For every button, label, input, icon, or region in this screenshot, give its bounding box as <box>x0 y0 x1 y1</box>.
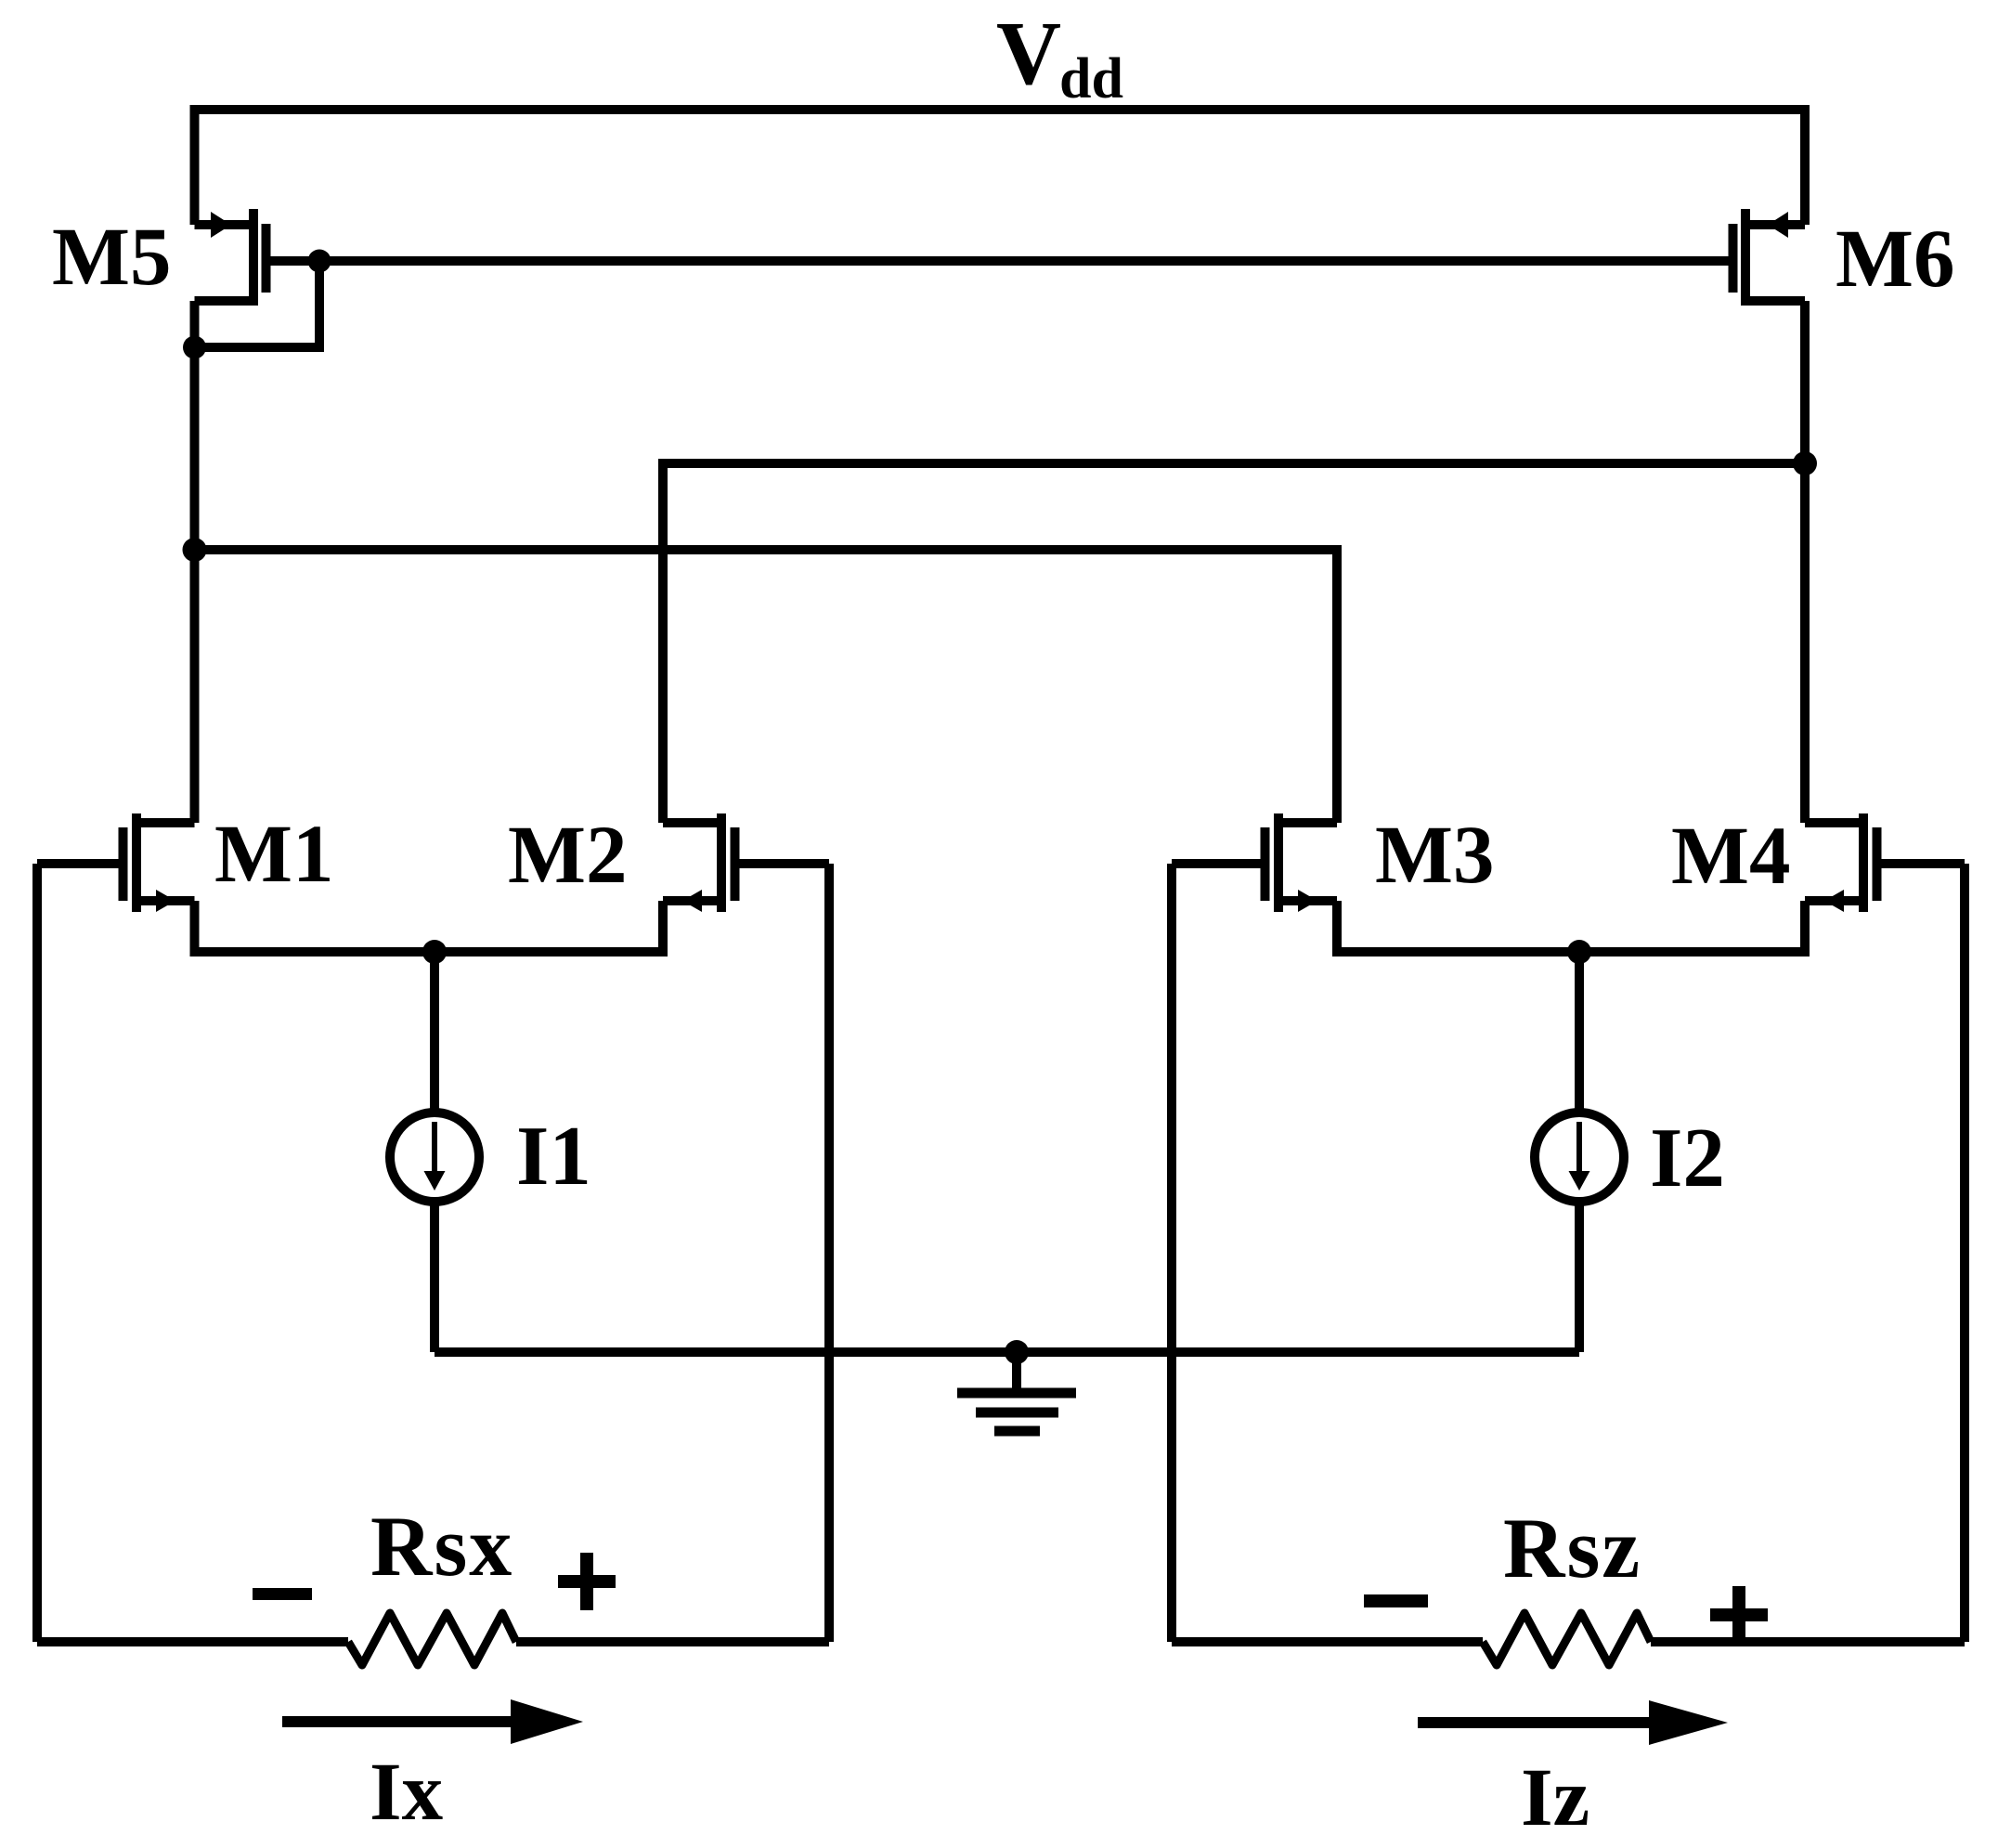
svg-text:I2: I2 <box>1650 1111 1725 1204</box>
transistor M4 <box>1805 813 1965 912</box>
svg-text:M5: M5 <box>52 212 172 303</box>
svg-text:M4: M4 <box>1671 811 1791 902</box>
wire Vdd rail with drops to M5 and M6 sources <box>195 110 1806 225</box>
svg-text:Rsz: Rsz <box>1503 1501 1641 1595</box>
wire ground bus <box>435 1347 1579 1357</box>
wire M1 source tail <box>195 901 435 952</box>
svg-text:M2: M2 <box>508 810 628 901</box>
transistor M2 <box>663 813 829 912</box>
wire bottom left from M1 gate to Rsx <box>37 1637 348 1646</box>
svg-text:M1: M1 <box>214 809 334 900</box>
junction dot node X sources M1 M2 <box>422 940 447 964</box>
wire M5 drain down to M1 drain <box>190 301 200 823</box>
svg-text:V: V <box>996 4 1061 103</box>
resistor Rsx <box>348 1613 516 1665</box>
junction dot M5 drain <box>183 336 206 359</box>
transistor M5 <box>195 209 320 306</box>
wire M6 drain down to M4 drain <box>1800 301 1810 823</box>
svg-text:Rsx: Rsx <box>370 1499 513 1594</box>
current source I1 <box>390 952 479 1352</box>
svg-text:I1: I1 <box>516 1109 591 1203</box>
wire M2 source tail <box>435 901 663 952</box>
wire Rsx to M2 gate vertical <box>516 1637 829 1646</box>
transistor M1 <box>37 813 195 912</box>
svg-text:M3: M3 <box>1375 810 1495 901</box>
wire Rsz to M4 gate vertical <box>1651 1637 1965 1646</box>
label plus sign Rsz <box>1710 1586 1768 1644</box>
label Vdd <box>996 4 1123 111</box>
svg-text:dd: dd <box>1059 47 1123 111</box>
junction dot M6 drain node B <box>1793 451 1817 475</box>
svg-text:M6: M6 <box>1836 214 1955 305</box>
junction dot node Z sources M3 M4 <box>1567 940 1591 964</box>
wire M3 gate to Rsz minus terminal <box>1167 864 1176 1642</box>
svg-text:Iz: Iz <box>1521 1752 1589 1843</box>
wire M5 gate to M6 gate <box>319 256 1729 266</box>
label plus sign Rsx <box>558 1553 616 1610</box>
label minus sign Rsz <box>1364 1594 1428 1607</box>
wire node A to M3 drain <box>195 550 1338 823</box>
junction dot M5 gate <box>308 250 331 273</box>
wire M4 source tail <box>1579 901 1805 952</box>
ground symbol <box>957 1352 1076 1437</box>
wire bottom right from M3 gate to Rsz <box>1172 1637 1483 1646</box>
wire M1 gate to Rsx minus terminal <box>32 864 42 1642</box>
arrow Ix <box>282 1699 583 1744</box>
resistor Rsz <box>1483 1613 1651 1665</box>
current source I2 <box>1535 952 1624 1352</box>
wire M2 gate to Rsx plus terminal <box>824 864 834 1642</box>
svg-text:Ix: Ix <box>370 1747 444 1838</box>
transistor M6 <box>1729 209 1806 306</box>
junction dot ground <box>1005 1340 1029 1364</box>
wire M4 gate to Rsz plus terminal <box>1960 864 1969 1642</box>
wire M5 diode connection gate to drain <box>195 261 320 347</box>
wire node B to M2 drain <box>663 463 1805 823</box>
junction dot node A <box>183 538 207 562</box>
wire M3 source tail <box>1337 901 1579 952</box>
wire M1 drain up to node A <box>190 550 200 823</box>
transistor M3 <box>1172 813 1337 912</box>
label minus sign Rsx <box>253 1588 312 1600</box>
arrow Iz <box>1418 1700 1728 1745</box>
